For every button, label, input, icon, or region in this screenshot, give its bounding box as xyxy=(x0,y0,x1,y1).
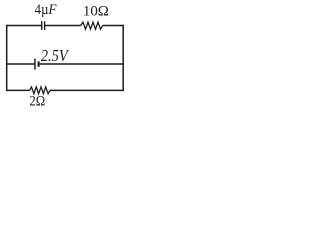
svg-text:4µF: 4µF xyxy=(35,2,58,18)
svg-text:10Ω: 10Ω xyxy=(83,4,109,20)
svg-text:2Ω: 2Ω xyxy=(29,94,45,110)
svg-text:2.5V: 2.5V xyxy=(41,46,70,65)
